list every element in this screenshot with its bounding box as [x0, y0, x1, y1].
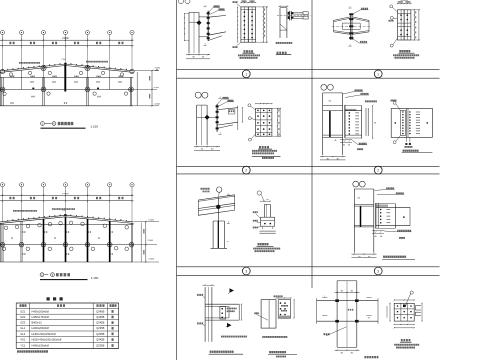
grid axis bubbles — [0, 183, 4, 187]
elev2 right levels — [134, 221, 159, 223]
svg-text:7.500: 7.500 — [155, 68, 161, 70]
detail B right dim texts — [264, 9, 265, 11]
detail H right plate and dim — [365, 108, 367, 136]
elev1 girt line — [0, 88, 134, 90]
detail N leader — [257, 315, 268, 321]
detail G end plate front view — [256, 108, 272, 136]
detail F beam — [217, 108, 238, 110]
detail C bolt assembly — [289, 11, 291, 21]
svg-text:GZ2: GZ2 — [20, 315, 26, 319]
detail H bolts — [349, 112, 351, 114]
detail O corner bolts — [335, 299, 339, 302]
detail L bolts — [380, 209, 382, 211]
detail B dims right — [262, 7, 264, 42]
detail A top leaders — [209, 8, 214, 13]
elev1 right levels — [134, 70, 159, 72]
elev2 grid verticals upper — [2, 201, 4, 222]
detail M left flags — [197, 294, 199, 296]
svg-text:2.500: 2.500 — [148, 240, 154, 242]
table note — [17, 350, 19, 352]
detail N dims above — [276, 297, 292, 299]
detail F stiffener and weld — [197, 116, 217, 118]
elev2 left edge column — [0, 223, 2, 262]
svg-text:H(250-400)x150x150x6x8: H(250-400)x150x150x6x8 — [32, 338, 62, 342]
elev1 grid verticals — [2, 46, 4, 71]
detail G left leaders — [251, 106, 256, 110]
elev1 girt cleats — [32, 88, 34, 90]
svg-text:H400x200x6x8: H400x200x6x8 — [32, 326, 50, 330]
svg-text:GZ1: GZ1 — [20, 309, 26, 313]
elev1 upper column segments — [21, 70, 23, 89]
detail L below joint dims — [372, 230, 384, 232]
elev1 roof joint circles — [41, 65, 46, 70]
detail C note and title — [276, 42, 278, 44]
row band 1 — [177, 68, 440, 70]
elev1 left edge column — [0, 72, 2, 106]
detail H below joint dims — [340, 139, 352, 141]
vertical divider left — [176, 0, 178, 360]
detail G dims top — [256, 103, 272, 105]
svg-text:3: 3 — [245, 269, 247, 273]
svg-text:Q345B: Q345B — [96, 338, 104, 342]
detail F small dim box — [228, 110, 235, 114]
detail B end plate front view — [241, 7, 256, 42]
elev1 ridge column thick — [64, 65, 66, 92]
svg-text:1:150: 1:150 — [91, 124, 99, 128]
svg-text:XG1: XG1 — [20, 338, 26, 342]
elev2 bottom line — [0, 261, 134, 263]
svg-text:24000: 24000 — [62, 193, 69, 195]
elev1 main columns below — [1, 77, 3, 105]
svg-text:Q345B: Q345B — [96, 332, 104, 336]
svg-text:H400x150x6x8: H400x150x6x8 — [32, 344, 50, 348]
detail M right dim — [241, 304, 243, 320]
detail L title — [383, 256, 385, 258]
detail K section view — [257, 191, 261, 195]
detail E right dim texts — [415, 11, 416, 13]
svg-text:0.000: 0.000 — [155, 104, 161, 106]
detail B title and notes — [244, 50, 246, 52]
detail M bolt plate — [220, 307, 226, 320]
detail O beam marks — [322, 296, 327, 298]
elev2 texts above roof — [13, 210, 14, 212]
detail B left dim line — [237, 7, 239, 42]
roof line — [0, 215, 65, 222]
dimension band — [0, 194, 134, 196]
detail B corner leaders — [237, 4, 241, 7]
svg-text:GL1: GL1 — [20, 326, 25, 330]
detail N brace detail — [261, 300, 276, 328]
detail C section view — [279, 8, 281, 38]
table grid — [16, 302, 119, 304]
detail I member dots — [395, 122, 397, 124]
detail M brace gusset connection — [204, 287, 206, 342]
detail J purlin-rafter joint side view — [217, 187, 222, 192]
svg-text:Q235B: Q235B — [96, 344, 104, 348]
detail E left leaders — [393, 8, 398, 13]
elev2 title — [40, 273, 44, 277]
detail E title and notes — [399, 50, 401, 52]
detail P side brackets — [415, 305, 421, 307]
dimension band — [0, 39, 134, 41]
detail O cross joint — [317, 300, 378, 302]
svg-text:Q345B: Q345B — [96, 315, 104, 319]
elev1 eave tie line — [0, 76, 134, 78]
detail G right dim texts — [278, 109, 279, 111]
elev1 eave joint circles — [0, 69, 4, 73]
elev1 bottom line — [0, 105, 134, 107]
svg-text:GZ3: GZ3 — [20, 321, 26, 325]
detail D inner stiffener lines — [342, 22, 360, 24]
detail A eave connection side view — [179, 0, 184, 4]
detail H bottom dims — [320, 156, 346, 158]
elev1 tie line labels — [10, 76, 11, 78]
detail D leaders — [353, 10, 361, 14]
elev1 title — [41, 122, 45, 126]
detail O diagonal leader — [326, 327, 347, 336]
row band 2 — [177, 165, 440, 167]
vertical divider middle — [311, 0, 313, 288]
detail P bolt plate plan — [394, 303, 414, 321]
svg-text:H350x175x6x8: H350x175x6x8 — [32, 315, 50, 319]
detail C gusset — [280, 24, 287, 30]
detail J rafter band — [198, 195, 234, 200]
detail L beam column connection — [353, 181, 359, 187]
roof line — [0, 64, 65, 71]
elev1 texts above roof — [19, 62, 20, 64]
grid axis bubbles — [0, 30, 4, 34]
detail K purlin section — [264, 204, 266, 217]
detail B dims top — [241, 2, 256, 4]
detail N right dim — [293, 300, 295, 318]
detail K title and notes — [258, 243, 260, 245]
detail H shaded flange plate — [345, 109, 356, 111]
svg-text:2: 2 — [377, 169, 379, 173]
elev1 misc bay labels — [30, 81, 31, 83]
detail L bottom dims — [352, 253, 377, 255]
detail A dims bottom — [186, 54, 210, 56]
detail P title and notes — [401, 339, 403, 341]
table header — [20, 304, 22, 307]
elev2 misc bay labels — [22, 231, 23, 233]
detail M top dim ticks — [203, 284, 215, 286]
elev2 columns — [1, 223, 3, 262]
svg-text:YC1: YC1 — [20, 344, 26, 348]
detail O vertical member — [336, 281, 338, 348]
elev1 lower small circles — [3, 92, 6, 95]
svg-text:24000: 24000 — [62, 38, 69, 40]
detail O center texts — [348, 309, 349, 311]
component schedule table title — [47, 297, 50, 300]
detail M texts inside — [227, 308, 228, 310]
detail N title — [269, 351, 271, 353]
detail D ridge splice side view — [334, 17, 351, 21]
svg-text:H(400-200)x150x6x8: H(400-200)x150x6x8 — [32, 332, 57, 336]
detail O bottom dims — [335, 349, 360, 351]
detail J column below — [212, 221, 214, 248]
detail D center line — [332, 25, 370, 27]
detail I splice plan view — [391, 109, 432, 138]
detail K left leaders — [256, 214, 261, 219]
detail G title and notes — [259, 146, 261, 148]
detail O title — [364, 356, 366, 358]
detail I title — [403, 150, 405, 152]
svg-text:B400x12: B400x12 — [32, 321, 43, 325]
elev2 thick columns — [43, 219, 45, 262]
detail N note — [262, 336, 264, 338]
detail M flags — [230, 288, 235, 293]
detail I leaders — [396, 104, 401, 111]
svg-text:M: M — [374, 123, 376, 125]
svg-text:2: 2 — [245, 169, 247, 173]
detail F bottom dims — [194, 146, 220, 148]
svg-text:4.500: 4.500 — [154, 87, 160, 89]
detail H beam column moment connection — [321, 84, 327, 90]
detail A left dim line — [184, 14, 186, 41]
svg-text:3: 3 — [377, 269, 379, 273]
detail E dims top — [398, 3, 411, 5]
svg-text:1: 1 — [377, 72, 379, 76]
detail M title — [210, 351, 212, 353]
detail J texts — [201, 188, 203, 190]
detail M horizontal members — [205, 303, 239, 305]
svg-text:1: 1 — [245, 72, 247, 76]
elev1 callout circles under roof — [9, 73, 12, 76]
elev2 ridge blob — [64, 214, 66, 216]
detail K clip assembly — [261, 217, 275, 226]
detail N texts — [281, 305, 282, 307]
detail P curved leader — [405, 293, 411, 306]
svg-text:1:150: 1:150 — [91, 276, 99, 280]
elev2 joint circles on girt — [0, 242, 5, 247]
detail J center connection — [217, 199, 219, 221]
svg-text:H400x200x6x8: H400x200x6x8 — [32, 309, 50, 313]
detail F top leaders — [217, 99, 222, 104]
detail H top leaders — [343, 92, 354, 95]
svg-text:Q235B: Q235B — [96, 326, 104, 330]
detail P dims — [389, 303, 391, 321]
svg-text:GL2: GL2 — [20, 332, 25, 336]
detail H beam — [344, 105, 346, 138]
elev1 girt joint circles — [0, 87, 5, 92]
detail N plate with bolts — [278, 300, 291, 318]
elev2 girt line — [0, 244, 134, 246]
detail L top leaders — [375, 190, 386, 191]
detail E ridge end plate front view — [398, 10, 411, 40]
detail M note — [221, 336, 223, 338]
detail G dims right — [277, 108, 279, 136]
detail F eave knee joint — [195, 92, 201, 98]
detail L beam — [375, 203, 377, 229]
row band 3 — [177, 266, 440, 268]
detail O top dims — [335, 291, 360, 293]
detail L shaded plate — [376, 204, 388, 207]
elev2 callout circles lower band — [2, 247, 6, 251]
detail E dims right — [413, 10, 415, 40]
elev2 callout circles under roof — [4, 226, 8, 230]
elev1 ridge blob — [64, 63, 66, 65]
svg-text:0.000: 0.000 — [149, 258, 155, 260]
detail A beam stub — [208, 15, 226, 17]
svg-text:Q345B: Q345B — [96, 309, 104, 313]
svg-text:Q345B: Q345B — [96, 321, 104, 325]
svg-text:5.000: 5.000 — [149, 220, 155, 222]
elev2 eave tie line — [0, 223, 134, 225]
